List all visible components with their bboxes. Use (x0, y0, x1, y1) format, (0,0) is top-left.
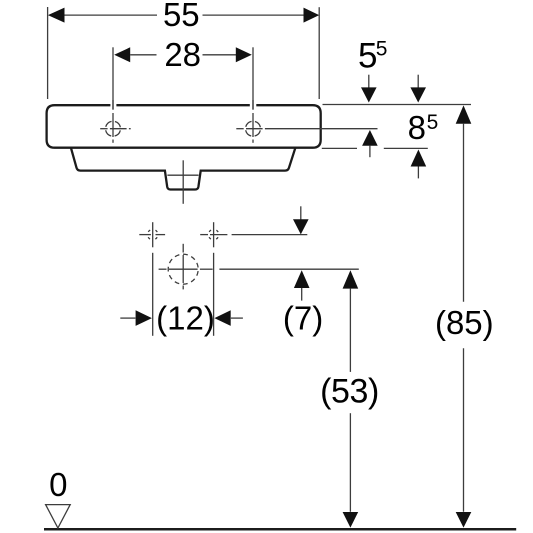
svg-text:55: 55 (163, 0, 200, 33)
svg-text:(12): (12) (156, 299, 215, 336)
svg-text:(53): (53) (320, 373, 379, 411)
svg-text:5: 5 (376, 38, 388, 61)
svg-text:0: 0 (49, 466, 67, 503)
svg-text:(7): (7) (283, 299, 323, 336)
svg-text:5: 5 (427, 111, 439, 134)
svg-text:(85): (85) (435, 304, 494, 341)
svg-text:8: 8 (408, 109, 426, 146)
svg-text:5: 5 (358, 37, 377, 76)
svg-text:28: 28 (164, 36, 201, 73)
